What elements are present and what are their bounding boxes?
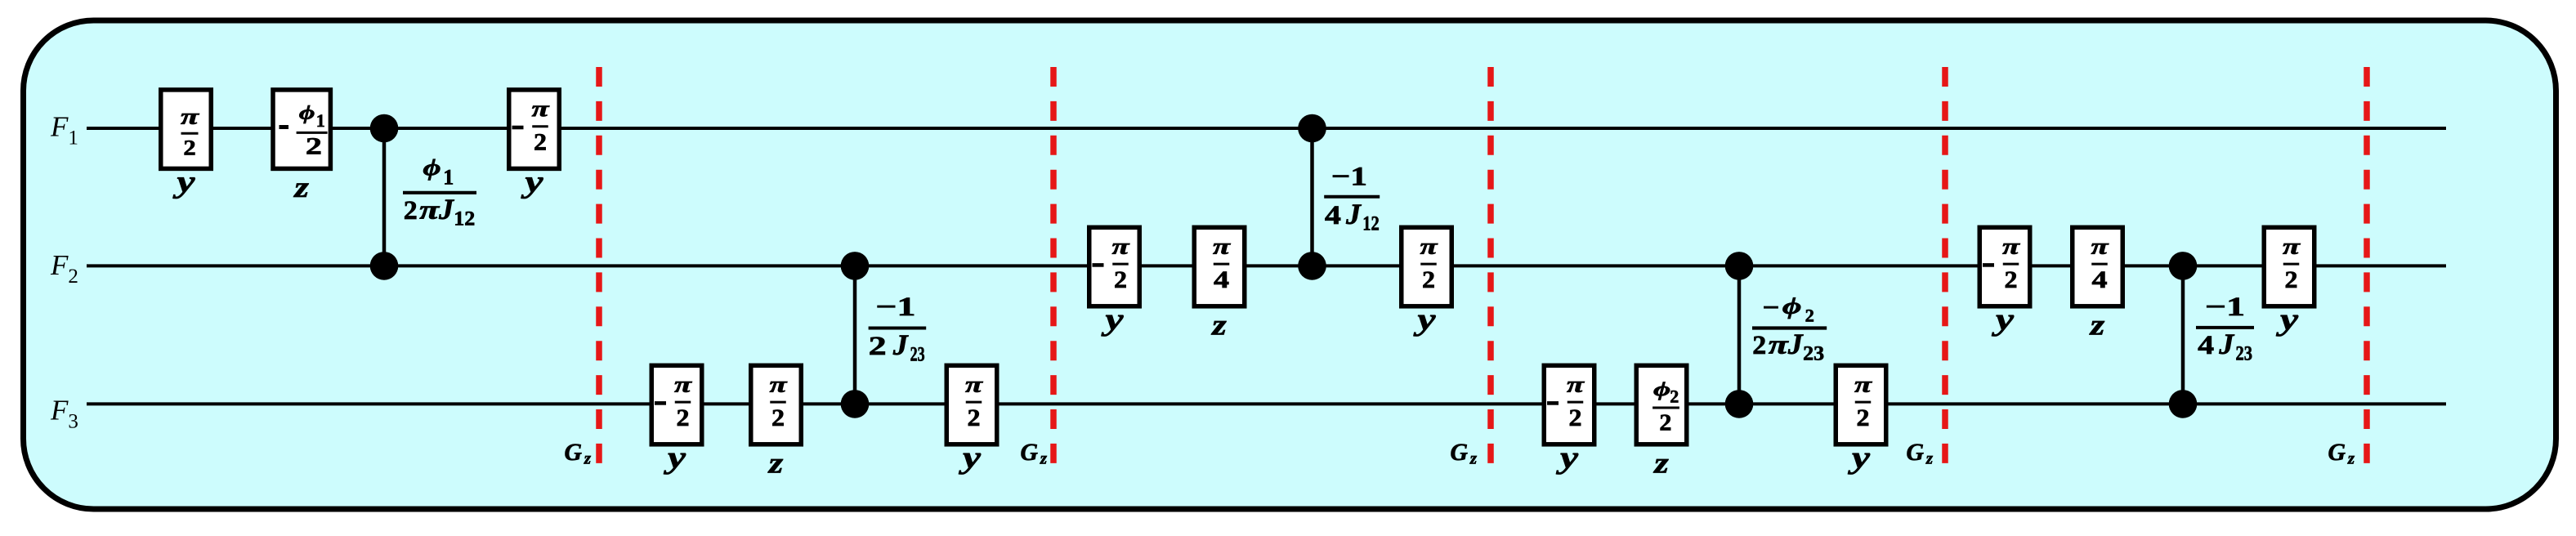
evolution time label -1/(4*J12) bbox=[1324, 162, 1380, 234]
svg-text:z: z bbox=[1040, 449, 1048, 468]
svg-text:4: 4 bbox=[2092, 267, 2108, 293]
svg-text:2: 2 bbox=[1670, 386, 1679, 407]
svg-text:2: 2 bbox=[771, 405, 785, 431]
gate box R13 -pi/2 y on F3 bbox=[1544, 365, 1594, 444]
gate box R1 pi/2 y on F1 bbox=[161, 90, 212, 168]
svg-text:z: z bbox=[2347, 449, 2355, 468]
gate box R9 pi/2 y on F2 bbox=[2264, 227, 2314, 306]
svg-text:2: 2 bbox=[534, 130, 547, 156]
coupling J12 evolution 1 bbox=[370, 114, 399, 280]
svg-text:2: 2 bbox=[1569, 405, 1582, 431]
gradient label G_z 1 bbox=[565, 440, 592, 468]
svg-text:J: J bbox=[892, 328, 909, 361]
svg-text:2: 2 bbox=[968, 405, 981, 431]
svg-text:z: z bbox=[1469, 449, 1478, 468]
coupling J23 evolution 3 bbox=[2169, 252, 2198, 418]
svg-text:G: G bbox=[1451, 440, 1469, 466]
svg-text:2: 2 bbox=[1659, 411, 1671, 436]
coupling J23 evolution 2 bbox=[1725, 252, 1754, 418]
gradient label G_z 4 bbox=[1907, 440, 1934, 468]
coupling J12 evolution 2 bbox=[1298, 114, 1326, 280]
svg-text:π: π bbox=[1112, 234, 1131, 258]
gate box R6 pi/2 y on F2 bbox=[1402, 227, 1452, 306]
svg-text:J: J bbox=[2218, 328, 2234, 360]
svg-text:2: 2 bbox=[183, 136, 195, 160]
svg-text:z: z bbox=[293, 171, 309, 203]
svg-text:ϕ: ϕ bbox=[1653, 380, 1670, 401]
svg-text:z: z bbox=[584, 449, 592, 468]
wire F2 bbox=[87, 264, 2446, 267]
svg-text:−1: −1 bbox=[875, 293, 915, 322]
svg-text:z: z bbox=[767, 446, 783, 479]
svg-text:π: π bbox=[2002, 234, 2021, 258]
svg-text:1: 1 bbox=[316, 110, 325, 131]
gate box R12 pi/2 y on F3 bbox=[946, 365, 997, 444]
svg-text:2: 2 bbox=[2005, 267, 2018, 293]
svg-text:2: 2 bbox=[1857, 405, 1870, 431]
svg-text:π: π bbox=[674, 372, 693, 396]
gate box R8 pi/4 z on F2 bbox=[2073, 227, 2123, 306]
gradient label G_z 3 bbox=[1451, 440, 1478, 468]
svg-text:ϕ: ϕ bbox=[423, 155, 441, 181]
svg-text:J: J bbox=[438, 193, 454, 226]
svg-text:12: 12 bbox=[1362, 212, 1380, 234]
gradient label G_z 2 bbox=[1021, 440, 1048, 468]
coupling J23 evolution 1 bbox=[841, 252, 870, 418]
svg-text:z: z bbox=[1652, 446, 1669, 479]
svg-text:J: J bbox=[1345, 198, 1362, 230]
gate box R14 phi2/2 z on F3 bbox=[1636, 365, 1687, 444]
svg-text:2: 2 bbox=[1422, 267, 1435, 293]
svg-text:G: G bbox=[1021, 440, 1039, 466]
svg-text:G: G bbox=[1907, 440, 1925, 466]
svg-text:G: G bbox=[2328, 440, 2346, 466]
svg-text:−: − bbox=[1763, 293, 1780, 323]
gate box R3 -pi/2 y on F1 bbox=[509, 90, 560, 168]
svg-text:2: 2 bbox=[677, 405, 690, 431]
svg-text:ϕ: ϕ bbox=[1782, 294, 1802, 319]
gate box R11 pi/2 z on F3 bbox=[751, 365, 802, 444]
svg-text:1: 1 bbox=[443, 165, 454, 189]
svg-text:π: π bbox=[1213, 234, 1232, 258]
svg-text:G: G bbox=[565, 440, 583, 466]
gradient label G_z 5 bbox=[2328, 440, 2355, 468]
svg-text:2: 2 bbox=[306, 132, 322, 159]
svg-text:−1: −1 bbox=[2205, 293, 2245, 322]
gradient pulse line G_z 5 bbox=[2364, 67, 2370, 463]
evolution time label -1/(4*J23) bbox=[2196, 293, 2254, 364]
svg-text:π: π bbox=[965, 372, 984, 396]
gate box R15 pi/2 y on F3 bbox=[1836, 365, 1886, 444]
evolution time label -phi2/(2*pi*J23) bbox=[1752, 293, 1827, 365]
svg-text:23: 23 bbox=[1803, 343, 1824, 365]
evolution time label phi1/(2*pi*J12) bbox=[403, 155, 476, 230]
svg-text:2: 2 bbox=[404, 196, 418, 226]
svg-text:−1: −1 bbox=[1331, 162, 1367, 191]
svg-text:π: π bbox=[2283, 234, 2301, 258]
svg-text:4: 4 bbox=[1325, 201, 1341, 230]
gradient pulse line G_z 2 bbox=[1050, 67, 1057, 463]
svg-text:2: 2 bbox=[1114, 267, 1127, 293]
svg-text:π: π bbox=[1854, 372, 1873, 396]
gradient pulse line G_z 3 bbox=[1487, 67, 1494, 463]
svg-text:J: J bbox=[1787, 328, 1804, 360]
svg-text:2: 2 bbox=[869, 332, 887, 361]
svg-text:23: 23 bbox=[2236, 342, 2253, 364]
svg-text:12: 12 bbox=[454, 208, 475, 230]
svg-text:2: 2 bbox=[2285, 267, 2298, 293]
svg-text:π: π bbox=[770, 372, 789, 396]
svg-text:π: π bbox=[419, 196, 440, 226]
gate box R10 -pi/2 y on F3 bbox=[651, 365, 702, 444]
svg-text:2: 2 bbox=[1805, 306, 1814, 326]
gradient pulse line G_z 1 bbox=[596, 67, 602, 463]
svg-text:π: π bbox=[532, 96, 551, 121]
gate box R5 pi/4 z on F2 bbox=[1194, 227, 1245, 306]
evolution time label -1/(2*J23) bbox=[869, 293, 927, 365]
wire F3 bbox=[87, 402, 2446, 405]
svg-text:z: z bbox=[1210, 308, 1227, 341]
svg-text:23: 23 bbox=[910, 344, 925, 366]
svg-text:4: 4 bbox=[2198, 331, 2214, 360]
svg-text:π: π bbox=[2091, 234, 2110, 258]
svg-text:z: z bbox=[1925, 449, 1934, 468]
gate box R2 -phi1/2 z on F1 bbox=[273, 90, 330, 168]
svg-text:π: π bbox=[1420, 234, 1439, 258]
svg-text:2: 2 bbox=[1752, 331, 1766, 360]
svg-text:π: π bbox=[1567, 372, 1585, 396]
svg-text:z: z bbox=[2088, 308, 2104, 341]
svg-text:ϕ: ϕ bbox=[299, 103, 315, 124]
svg-text:4: 4 bbox=[1214, 267, 1229, 293]
gate box R4 -pi/2 y on F2 bbox=[1089, 227, 1140, 306]
wire F1 bbox=[87, 127, 2446, 130]
svg-text:π: π bbox=[181, 105, 200, 129]
svg-text:π: π bbox=[1769, 331, 1789, 360]
gate box R7 -pi/2 y on F2 bbox=[1979, 227, 2030, 306]
gradient pulse line G_z 4 bbox=[1942, 67, 1948, 463]
